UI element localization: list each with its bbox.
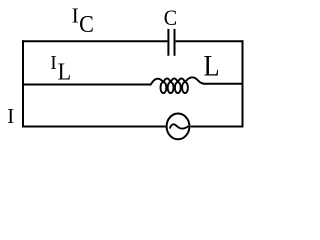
wire: top right segment: [176, 40, 244, 42]
wire: left vertical: [22, 40, 24, 127]
wire: middle right segment: [203, 83, 244, 85]
svg-text:L: L: [204, 50, 220, 83]
capacitor C1 plate right: [174, 29, 176, 56]
svg-text:C: C: [79, 11, 94, 38]
svg-text:I: I: [7, 105, 14, 128]
wire: middle left segment: [22, 84, 145, 86]
svg-text:C: C: [164, 5, 177, 30]
svg-text:L: L: [58, 59, 72, 86]
wire: right vertical: [242, 40, 244, 127]
wire: bottom left segment: [22, 126, 166, 128]
wire: bottom right segment: [191, 126, 244, 128]
svg-text:I: I: [72, 4, 79, 28]
AC source V1 sine: [170, 124, 188, 128]
inductor L1 coil: [144, 77, 204, 93]
svg-text:I: I: [50, 53, 57, 74]
wire: top left segment: [22, 40, 167, 42]
capacitor C1 plate left: [167, 29, 169, 56]
AC source V1 circle: [167, 114, 190, 140]
